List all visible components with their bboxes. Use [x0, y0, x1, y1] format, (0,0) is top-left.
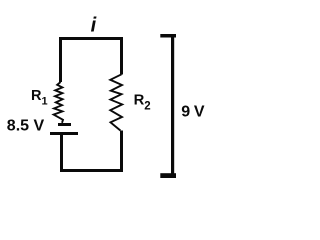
resistor R1: [54, 82, 63, 123]
bracket 9 V bottom arm: [160, 173, 176, 178]
svg-text:R1: R1: [31, 88, 48, 107]
battery V1 top plate (short): [58, 123, 71, 126]
svg-text:9 V: 9 V: [181, 104, 205, 121]
wire bottom loop (left vertical, bottom horizontal, right vertical): [62, 131, 122, 171]
battery V1 bottom plate (long): [50, 132, 78, 135]
resistor R2: [110, 74, 122, 130]
svg-text:R2: R2: [134, 93, 151, 113]
wire top loop (left vertical, top horizontal, right vertical): [61, 39, 122, 83]
svg-text:i: i: [91, 15, 97, 37]
bracket 9 V top arm: [160, 34, 176, 38]
bracket 9 V vertical: [171, 34, 174, 178]
svg-text:8.5 V: 8.5 V: [7, 118, 45, 135]
